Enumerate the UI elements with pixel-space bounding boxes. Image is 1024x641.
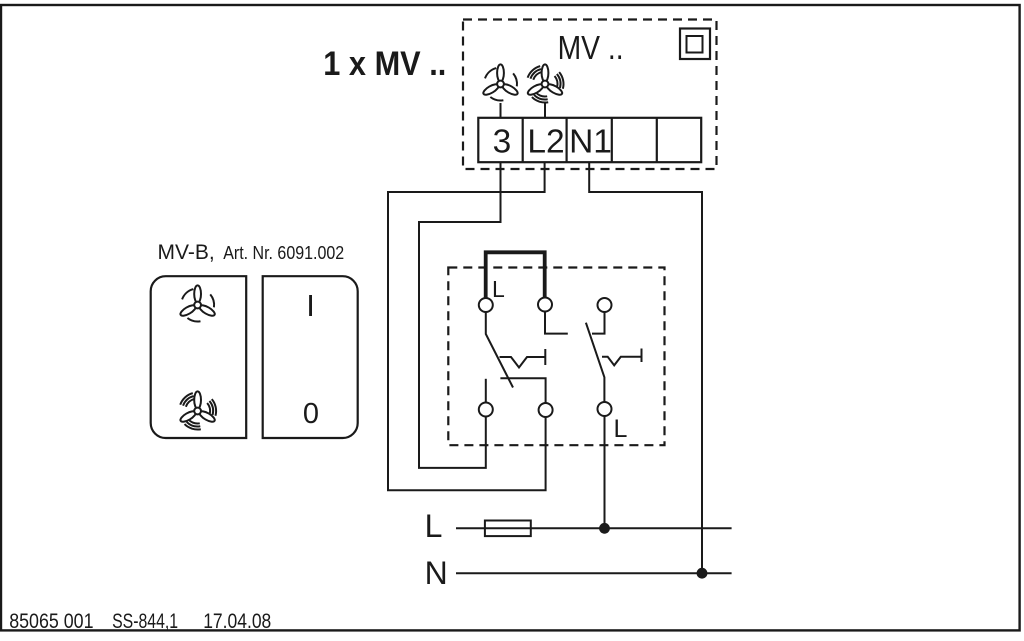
- N bus line: [456, 572, 732, 574]
- wire terminal 3 to switch contact (bottom left): [419, 162, 501, 468]
- svg-text:N1: N1: [569, 124, 612, 161]
- svg-text:N: N: [425, 555, 448, 591]
- wire fan M1 to terminal 3: [500, 103, 502, 118]
- svg-text:0: 0: [303, 398, 319, 430]
- flush-box icon: [680, 29, 710, 60]
- svg-text:L: L: [614, 415, 628, 443]
- terminal circle C3: [598, 298, 612, 312]
- L bus line: [456, 527, 732, 529]
- switch 1 blade: [486, 312, 513, 388]
- switch 2 spring contact: [602, 349, 642, 366]
- bridge wire (thick) between L terminal and second pole: [486, 252, 545, 298]
- rocker half with I / 0: [263, 276, 358, 438]
- svg-text:MV ..: MV ..: [558, 29, 624, 66]
- terminal circle C4: [479, 403, 493, 417]
- wire fan M2 to terminal L2: [544, 103, 546, 118]
- svg-text:17.04.08: 17.04.08: [203, 609, 271, 633]
- wire C3 to switch 2 pivot: [592, 312, 605, 334]
- fan M1 (speed 1): [482, 64, 519, 100]
- svg-text:L2: L2: [527, 124, 564, 161]
- fuse F1: [485, 521, 531, 537]
- svg-text:85065 001: 85065 001: [9, 609, 93, 633]
- wire C2 to switch 2 contact: [545, 312, 568, 334]
- switch 1 open contact stub above C4: [485, 379, 487, 403]
- svg-text:MV-B,: MV-B,: [158, 241, 215, 264]
- terminal circle C1: [479, 298, 493, 312]
- rocker half with fans: [151, 276, 247, 438]
- terminal circle C5: [539, 403, 553, 417]
- switch 2 blade: [586, 323, 605, 402]
- wire C6 to L bus: [604, 416, 606, 528]
- svg-text:3: 3: [493, 124, 512, 161]
- terminal strip: [478, 118, 701, 162]
- terminal circle C6: [598, 402, 612, 416]
- svg-text:1 x MV ..: 1 x MV ..: [323, 45, 446, 83]
- svg-text:I: I: [306, 288, 315, 323]
- terminal circle C2: [538, 298, 552, 312]
- wire terminal L2 to switch contact (bottom middle): [388, 162, 546, 490]
- svg-text:L: L: [492, 276, 505, 302]
- MV unit dashed box: [463, 20, 717, 170]
- switch 1 spring contact: [500, 349, 546, 368]
- junction dot L bus: [599, 523, 610, 534]
- fan M2 (speed 2): [526, 64, 569, 108]
- wire terminal N1 to N bus: [589, 162, 702, 573]
- fan icon (speed 1) on rocker: [179, 285, 216, 321]
- switch insert dashed box: [448, 268, 664, 446]
- switch 1 lower contact to C5: [500, 378, 545, 403]
- junction dot N bus: [697, 568, 708, 579]
- svg-text:SS-844,1: SS-844,1: [112, 609, 178, 633]
- svg-text:L: L: [425, 508, 443, 544]
- svg-text:Art. Nr. 6091.002: Art. Nr. 6091.002: [223, 243, 344, 263]
- fan icon (speed 2) on rocker: [179, 391, 222, 435]
